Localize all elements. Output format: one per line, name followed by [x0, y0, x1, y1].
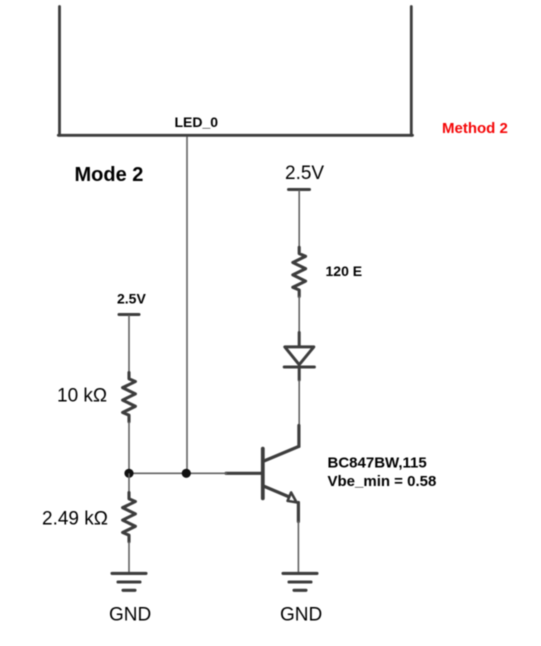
collector diagonal	[264, 446, 299, 461]
svg-text:GND: GND	[109, 605, 151, 626]
wire LED_0 vertical from box to base node	[186, 137, 188, 474]
resistor 10 kOhm	[123, 373, 136, 422]
box right edge	[410, 7, 413, 136]
emitter diagonal	[264, 486, 288, 496]
wire resistor to ground (left)	[128, 542, 130, 574]
svg-text:BC847BW,115: BC847BW,115	[328, 454, 427, 471]
svg-text:120 E: 120 E	[326, 263, 363, 279]
wire diode to collector	[298, 380, 300, 426]
base bar	[261, 449, 265, 499]
svg-text:Mode 2: Mode 2	[75, 164, 144, 186]
base lead	[226, 472, 262, 475]
power supply bar 2.5V (left)	[119, 313, 139, 316]
wire supply to resistor 10 k	[128, 315, 130, 373]
junction node (LED_0 / base)	[182, 469, 191, 478]
svg-text:2.49 kΩ: 2.49 kΩ	[42, 509, 108, 530]
wire resistor to diode	[298, 296, 300, 333]
emitter arrowhead	[288, 493, 297, 503]
power supply bar 2.5V (right)	[289, 188, 310, 191]
cathode lead	[298, 368, 301, 380]
svg-text:GND: GND	[280, 605, 322, 626]
ground symbol (left)	[112, 573, 146, 590]
box left edge	[58, 7, 61, 136]
wire supply to resistor 120 E	[298, 190, 300, 248]
collector lead vertical	[297, 426, 300, 447]
wire node horizontal to base	[129, 472, 227, 474]
svg-text:10 kΩ: 10 kΩ	[57, 386, 107, 407]
emitter lead vertical	[297, 503, 300, 522]
junction node (divider)	[124, 469, 133, 478]
cathode bar	[284, 366, 314, 369]
anode lead	[298, 333, 301, 347]
schematic sheet / component body outline (top box)	[58, 7, 412, 136]
svg-text:LED_0: LED_0	[175, 114, 219, 130]
wire node to resistor 2.49 k	[128, 473, 130, 493]
wire emitter to ground (right)	[297, 521, 299, 573]
wire resistor to node	[128, 422, 130, 474]
resistor 120 E	[293, 247, 306, 296]
svg-text:Method 2: Method 2	[442, 120, 508, 137]
resistor 2.49 kOhm	[123, 493, 136, 542]
ground symbol (right)	[283, 573, 317, 590]
diode D1 (LED)	[284, 333, 314, 381]
diode triangle	[285, 347, 314, 365]
transistor Q1 BC847BW,115	[226, 426, 299, 522]
svg-text:2.5V: 2.5V	[285, 163, 324, 184]
svg-text:Vbe_min = 0.58: Vbe_min = 0.58	[328, 473, 437, 490]
box bottom edge	[58, 134, 412, 137]
svg-text:2.5V: 2.5V	[117, 291, 146, 307]
